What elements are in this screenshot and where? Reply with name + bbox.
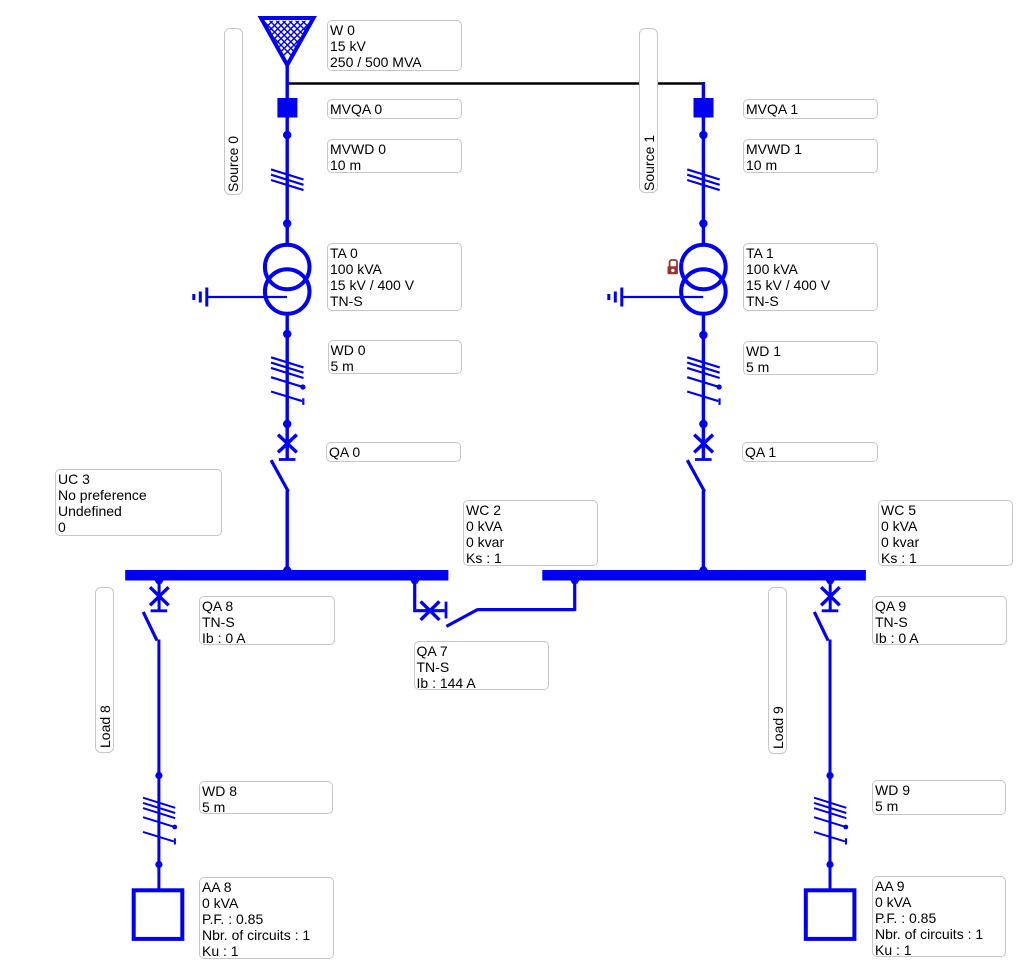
label Load 8 [95,587,114,753]
junction nub QA 0 / busbar [283,567,292,570]
label QA 7 [414,641,549,690]
load AA 9 [806,890,855,939]
tie breaker QA 7 [413,581,575,627]
transformer TA 1 [681,245,726,314]
label WD 8 [199,781,333,814]
lock icon on TA 1 [668,260,678,274]
breaker QA 8 [143,581,168,641]
wire: black tie line from Source 0 to Source 1 [287,82,704,84]
wire: source 0 feeder upper [286,63,289,245]
label W 0 [327,20,462,71]
wire: source 1 feeder upper [702,82,705,245]
label TA 0 [327,243,462,311]
cable MVWD 1 [687,169,720,190]
ground of TA 0 [194,288,287,307]
label UC 3 [55,469,222,536]
wire: source 0 feeder lower [286,491,289,571]
junction nub QA 7 right [570,581,579,584]
node above QA 0 [283,420,291,428]
node below MVQA 1 [699,131,707,139]
cable WD 1 [687,357,720,405]
label AA 9 [872,876,1006,957]
label QA 9 [872,596,1007,645]
wire: load 8 drop [157,640,160,891]
label QA 8 [199,596,335,645]
busbar 1 [125,570,448,581]
label MVWD 0 [327,139,462,173]
junction nub QA 8 / busbar [155,581,164,584]
node above QA 1 [699,420,707,428]
node below TA 1 [699,331,707,339]
label WC 5 [878,500,1013,566]
label WD 0 [328,340,463,374]
source W 0 [220,12,356,74]
label Source 0 [224,28,243,195]
node below TA 0 [283,330,291,338]
transformer TA 0 [265,245,310,314]
ground of TA 1 [609,288,703,307]
label MVQA 1 [743,99,878,119]
cable MVWD 0 [271,169,304,190]
label TA 1 [743,243,878,311]
node below WD 9 [826,861,833,868]
junction nub QA 1 / busbar [699,567,708,570]
wire: load 9 drop [829,640,832,891]
label QA 1 [742,442,878,462]
node above WD 8 [155,772,162,779]
junction nub QA 7 left [410,581,419,584]
cable WD 0 [271,357,304,405]
label WD 1 [743,341,878,375]
label Source 1 [639,28,658,193]
breaker MVQA 1 [694,98,714,118]
label WD 9 [872,780,1006,815]
node above TA 0 [283,219,291,227]
cable WD 9 [814,798,846,845]
load AA 8 [134,890,183,939]
breaker QA 9 [814,581,839,641]
label Load 9 [768,587,787,754]
cable WD 8 [143,798,175,845]
junction nub QA 9 / busbar [826,581,835,584]
wire: source 1 feeder mid [702,314,705,459]
node above WD 9 [826,772,833,779]
label AA 8 [199,877,334,959]
node below WD 8 [155,861,162,868]
label QA 0 [326,442,461,462]
wire: source 0 feeder mid [286,314,289,459]
breaker MVQA 0 [277,98,297,118]
node below MVQA 0 [283,131,291,139]
busbar 2 [542,570,866,581]
breaker QA 1 [687,435,713,492]
label MVWD 1 [743,139,878,173]
node above TA 1 [699,219,707,227]
label MVQA 0 [327,99,462,119]
label WC 2 [463,500,598,566]
breaker QA 0 [271,435,297,492]
wire: source 1 feeder lower [702,491,705,571]
